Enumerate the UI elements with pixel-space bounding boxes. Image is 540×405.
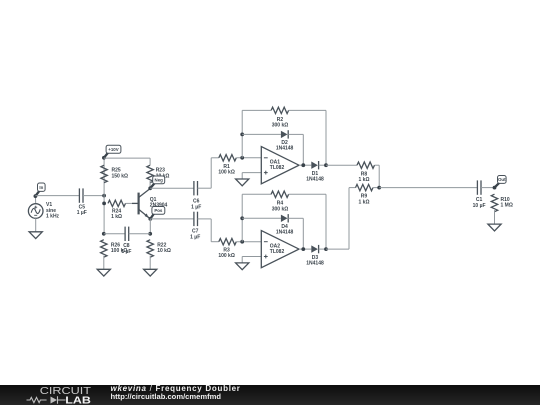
svg-text:Neg: Neg (155, 178, 164, 183)
wire R9 right (373, 187, 379, 189)
wire to R3 (211, 241, 219, 243)
wire up to R9 level (348, 188, 350, 250)
wire OA2 out to D3 (299, 248, 311, 250)
wire to D4 (242, 217, 281, 219)
node D2 left (240, 133, 244, 137)
resistor R22 (147, 240, 171, 257)
svg-text:300 kΩ: 300 kΩ (272, 123, 289, 129)
capacitor C5 (77, 188, 87, 216)
wire down to sum node (378, 165, 380, 187)
capacitor C8 (121, 227, 131, 255)
svg-text:10 µF: 10 µF (473, 203, 486, 209)
svg-text:LAB: LAB (65, 395, 91, 405)
node R24 junction (102, 202, 106, 206)
svg-text:In: In (39, 185, 43, 190)
resistor R9 (356, 184, 373, 190)
node R26/C8 (102, 232, 106, 236)
ground R26 (97, 269, 110, 276)
wire feedback right column (325, 194, 327, 249)
flag +10V (104, 145, 121, 158)
flag Neg (150, 176, 165, 188)
wire C8 to emitter column (129, 233, 151, 235)
wire Neg to C6 (150, 187, 194, 189)
resistor R24 (108, 200, 126, 206)
wire R1 to - input (236, 157, 261, 159)
wire diode column down (302, 218, 304, 249)
wire C1 to Out node (481, 187, 495, 189)
wire R22 to ground (149, 256, 151, 270)
wire Pos to C7 (150, 218, 194, 220)
resistor R8 (357, 162, 374, 168)
footer bar (0, 385, 540, 405)
wire R3 to - input (236, 241, 261, 243)
svg-text:1 kΩ: 1 kΩ (359, 177, 370, 183)
svg-text:100 kΩ: 100 kΩ (218, 170, 235, 176)
capacitor C1 (473, 180, 486, 209)
wire R24 to Q1 base (126, 202, 133, 204)
wire down to R3 (210, 219, 212, 242)
svg-text:1 MΩ: 1 MΩ (501, 203, 513, 209)
svg-text:1 kΩ: 1 kΩ (359, 199, 370, 205)
resistor R2 (271, 107, 288, 113)
resistor R25 (101, 165, 128, 182)
op-amp OA1 TL082 (261, 147, 299, 184)
voltage source V1 (28, 202, 59, 219)
wire to R2 (242, 109, 271, 111)
wire top out to R8 (326, 164, 357, 166)
svg-text:1N4148: 1N4148 (276, 230, 294, 236)
svg-text:Pos: Pos (154, 208, 163, 213)
wire C7 right (198, 218, 212, 220)
op-amp OA2 TL082 (261, 231, 299, 268)
wire node to C8 (104, 233, 125, 235)
wire R26 to ground (103, 256, 105, 270)
wire C5 to base divider node (83, 195, 104, 197)
wire feedback right column (325, 110, 327, 165)
wire to R1 (211, 157, 219, 159)
svg-text:100 kΩ: 100 kΩ (218, 253, 235, 259)
wire R23 to collector node (149, 181, 151, 189)
wire to R9 (349, 187, 356, 189)
node D2 right junction (301, 163, 305, 167)
resistor R10 (491, 194, 513, 211)
flag Pos (150, 207, 164, 219)
wire to D2 (242, 133, 281, 135)
capacitor C7 (190, 212, 200, 241)
svg-text:Out: Out (498, 177, 506, 182)
wire up to R1 (210, 158, 212, 188)
svg-text:1N4148: 1N4148 (306, 177, 324, 183)
node C5 junction (102, 194, 106, 198)
flag Out (495, 176, 507, 188)
node - input OA2 (240, 240, 244, 244)
svg-text:1N4148: 1N4148 (306, 260, 324, 266)
resistor R26 (101, 240, 128, 257)
wire bottom out right (326, 248, 349, 250)
ground OA2 + input (236, 263, 249, 270)
wire R10 to ground (494, 210, 496, 224)
svg-text:300 kΩ: 300 kΩ (272, 206, 289, 212)
wire +10V rail (104, 157, 150, 159)
capacitor C6 (191, 181, 201, 210)
wire R2 to right column (289, 109, 326, 111)
wire D4 to down column (288, 217, 303, 219)
ground V1 (29, 232, 42, 239)
footer text line 1 (111, 384, 241, 393)
wire R25 column upper (103, 158, 105, 196)
diode D3 (306, 245, 324, 267)
node collector (Neg) (148, 186, 152, 190)
svg-text:TL082: TL082 (270, 165, 285, 171)
wire D1 out (319, 164, 326, 166)
wire V1 to ground (35, 218, 37, 232)
resistor R4 (271, 191, 288, 197)
wire D2 to down column (288, 133, 303, 135)
wire In-node to C5 (35, 195, 79, 197)
wire D3 out (319, 248, 326, 250)
ground R22 (144, 269, 157, 276)
svg-text:1 kΩ: 1 kΩ (111, 214, 122, 220)
svg-text:1 µF: 1 µF (191, 204, 201, 210)
svg-text:10 kΩ: 10 kΩ (157, 248, 171, 254)
resistor R23 (147, 165, 170, 182)
ground R10 (488, 224, 501, 231)
node D4 right junction (301, 247, 305, 251)
wire OA1 out to D1 (299, 164, 311, 166)
wire feedback left column (241, 110, 243, 157)
wire sum to C1 (379, 187, 477, 189)
wire + to ground (241, 257, 243, 263)
node Out (493, 186, 497, 190)
svg-text:150 kΩ: 150 kΩ (112, 173, 129, 179)
diode D2 (276, 130, 294, 152)
wire divider column lower (103, 196, 105, 234)
transistor Q1 2N3904 (132, 189, 168, 219)
resistor R1 (219, 155, 236, 161)
svg-text:1N4148: 1N4148 (276, 146, 294, 152)
wire emitter down (149, 219, 151, 234)
footer text line 2 (111, 392, 222, 401)
flag In (35, 183, 45, 196)
node R22/C8 (148, 232, 152, 236)
node - input OA1 (240, 156, 244, 160)
node R4 right junction (324, 247, 328, 251)
diode D1 (306, 161, 324, 183)
ground OA1 + input (236, 179, 249, 186)
wire rail to R23 (149, 158, 151, 165)
svg-text:100 kΩ: 100 kΩ (111, 248, 128, 254)
wire R8 right (375, 164, 380, 166)
wire + input (242, 172, 261, 174)
node emitter (Pos) (148, 217, 152, 221)
wire diode column down (302, 134, 304, 165)
svg-text:+10V: +10V (108, 147, 118, 152)
svg-text:1 kHz: 1 kHz (46, 214, 60, 220)
wire C6 right (198, 187, 212, 189)
diode D4 (276, 214, 294, 236)
wire to R4 (242, 193, 271, 195)
wire In-node to V1 (34, 196, 36, 204)
svg-text:1 µF: 1 µF (77, 210, 87, 216)
node sum junction (377, 186, 381, 190)
node +10V junction (102, 156, 106, 160)
node R2 right junction (324, 163, 328, 167)
CircuitLab logo (0, 385, 110, 405)
svg-text:1 µF: 1 µF (190, 234, 200, 240)
svg-text:TL082: TL082 (270, 249, 285, 255)
wire + to ground (241, 173, 243, 179)
wire + input (242, 256, 261, 258)
resistor R3 (219, 239, 236, 245)
node D4 left (240, 216, 244, 220)
wire feedback left column (241, 194, 243, 241)
wire R4 to right column (289, 193, 326, 195)
node In junction (34, 194, 38, 198)
